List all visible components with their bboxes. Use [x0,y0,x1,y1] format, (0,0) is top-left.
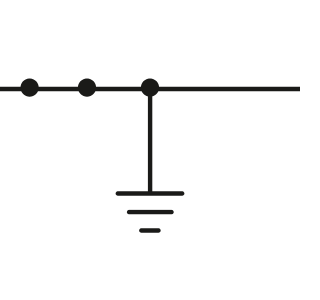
node junction 1 [21,79,39,97]
node junction 2 [78,79,96,97]
wire [148,88,152,194]
node junction 3 [141,79,159,97]
wire [0,87,300,91]
ground [118,194,182,231]
